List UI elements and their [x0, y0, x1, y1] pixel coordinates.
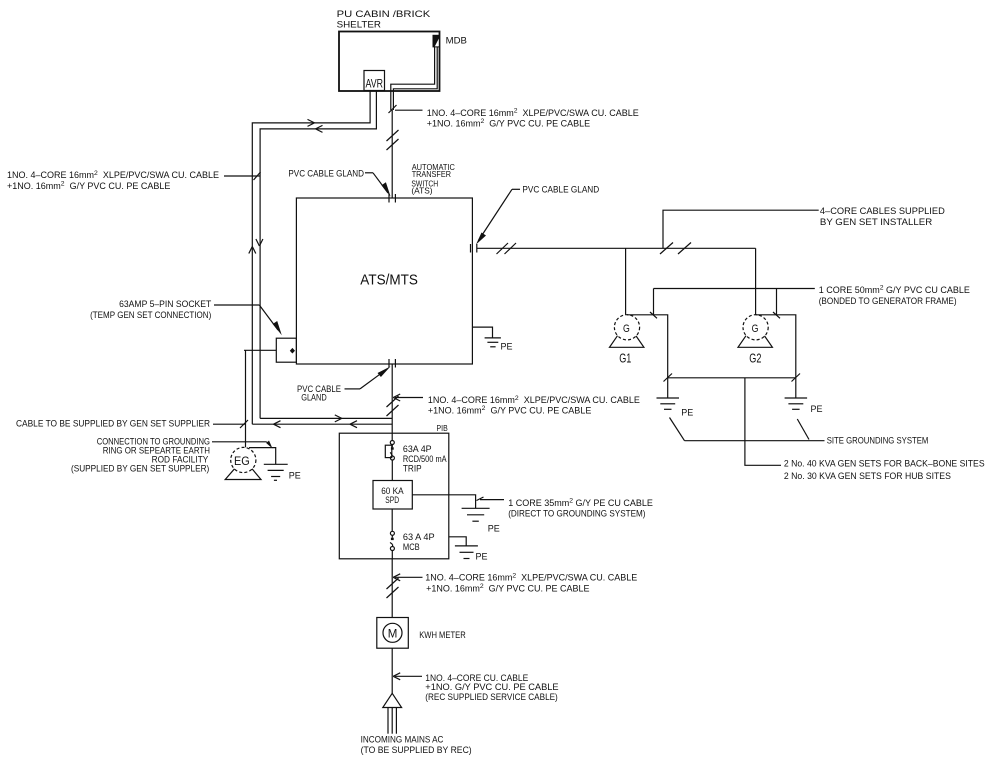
svg-text:INCOMING MAINS AC: INCOMING MAINS AC: [361, 735, 444, 745]
cable label below ATS: [428, 395, 640, 416]
svg-text:(REC SUPPLIED SERVICE CABLE): (REC SUPPLIED SERVICE CABLE): [425, 692, 558, 702]
svg-text:(BONDED TO GENERATOR FRAME): (BONDED TO GENERATOR FRAME): [819, 296, 957, 306]
MCB PE wire: [449, 537, 466, 546]
svg-text:SITE GROUNDING SYSTEM: SITE GROUNDING SYSTEM: [827, 436, 929, 446]
arrow right on upper AVR wire: [308, 119, 315, 126]
svg-text:2 No. 40 KVA GEN SETS FOR BACK: 2 No. 40 KVA GEN SETS FOR BACK–BONE SITE…: [784, 459, 985, 469]
arrow right on upper cross wire: [335, 415, 342, 422]
EG earth generator: [225, 447, 261, 479]
svg-text:PE: PE: [681, 408, 693, 418]
grounding connection label: [71, 436, 210, 473]
cable break marks near ATS: [497, 243, 517, 254]
RCD label: [403, 444, 447, 474]
svg-text:TRIP: TRIP: [403, 464, 422, 474]
riser to installer note: [663, 210, 819, 248]
svg-text:PVC CABLE GLAND: PVC CABLE GLAND: [522, 184, 599, 194]
arrow left on lower cross wire left: [274, 421, 281, 428]
svg-text:+1NO. 16mm2 G/Y PVC CU. PE CA: +1NO. 16mm2 G/Y PVC CU. PE CABLE: [427, 118, 590, 128]
socket feed wire: [244, 349, 276, 351]
left cable label: [7, 170, 219, 191]
svg-text:(ATS): (ATS): [411, 185, 432, 195]
leader to cable label (below PIB): [393, 574, 422, 581]
cross wire lower to PIB: [252, 423, 392, 425]
KWH meter circle: [383, 623, 402, 642]
leader PVC gland to ATS top: [365, 173, 391, 197]
incoming mains label: [361, 735, 472, 756]
leader gen set supplier: [213, 420, 248, 428]
wire AVR left pair lower: [260, 91, 376, 419]
svg-text:AVR: AVR: [366, 77, 384, 91]
PVC cable gland label (bottom): [297, 384, 341, 403]
leader to cable label (MDB drop): [395, 109, 423, 111]
svg-text:PE: PE: [476, 552, 488, 562]
wire AVR left pair upper: [252, 91, 370, 425]
EG feed wire: [245, 350, 247, 447]
svg-text:(TO BE SUPPLIED BY REC): (TO BE SUPPLIED BY REC): [361, 745, 472, 755]
arrow left on lower AVR wire: [316, 125, 323, 132]
ATS PE stub: [472, 327, 492, 338]
site grounding leader: [685, 440, 825, 442]
svg-text:SPD: SPD: [385, 495, 399, 505]
cable break marks on ATS top drop: [387, 130, 399, 150]
svg-text:CABLE TO BE SUPPLIED BY GEN SE: CABLE TO BE SUPPLIED BY GEN SET SUPPLIER: [16, 419, 210, 429]
svg-text:SHELTER: SHELTER: [337, 19, 382, 29]
socket pin diamond: [290, 348, 295, 354]
generator G2: [738, 315, 772, 348]
tick at G1 bonding drop: [650, 312, 657, 318]
EG PE ground: [264, 464, 288, 480]
SPD earth wire: [412, 495, 475, 509]
svg-text:63AMP 5–PIN SOCKET: 63AMP 5–PIN SOCKET: [119, 299, 212, 309]
wire drop to G2: [755, 248, 757, 314]
cable label top right: [427, 107, 639, 128]
wire ATS bottom to PIB: [391, 364, 393, 433]
svg-text:1NO. 4–CORE 16mm2 XLPE/PVC/SW: 1NO. 4–CORE 16mm2 XLPE/PVC/SWA CU. CABLE: [425, 572, 637, 582]
svg-text:PU CABIN /BRICK: PU CABIN /BRICK: [337, 9, 431, 19]
svg-text:PE: PE: [289, 471, 301, 481]
AVR box: [364, 71, 385, 91]
arrow up on left vertical: [249, 247, 256, 254]
shelter box: [339, 32, 440, 92]
svg-text:(TEMP GEN SET CONNECTION): (TEMP GEN SET CONNECTION): [90, 310, 211, 320]
ATS automatic transfer switch label: [411, 162, 455, 195]
wire MDB to ATS inner: [393, 47, 437, 110]
svg-text:PVC CABLE GLAND: PVC CABLE GLAND: [288, 168, 364, 178]
svg-text:+1NO. 16mm2 G/Y PVC CU. PE CA: +1NO. 16mm2 G/Y PVC CU. PE CABLE: [7, 180, 170, 190]
svg-text:1 CORE 35mm2 G/Y PE CU CABLE: 1 CORE 35mm2 G/Y PE CU CABLE: [508, 498, 653, 508]
svg-text:PIB: PIB: [437, 423, 448, 433]
tick at G2 bonding drop: [773, 312, 780, 318]
G1 frame wire: [627, 315, 668, 378]
incoming mains three lines: [388, 708, 396, 734]
PIB box: [339, 433, 449, 559]
svg-text:RCD/500 mA: RCD/500 mA: [403, 454, 447, 464]
63A socket box: [276, 338, 296, 362]
generator G1: [610, 315, 644, 348]
gland tick on MDB drop: [389, 105, 397, 113]
site grounding link from G1: [670, 418, 685, 441]
svg-text:1NO. 4–CORE 16mm2 XLPE/PVC/SW: 1NO. 4–CORE 16mm2 XLPE/PVC/SWA CU. CABLE: [427, 107, 639, 117]
service cable label: [425, 673, 558, 702]
bonding cable label: [819, 284, 970, 305]
gland marks at ATS top: [389, 194, 395, 203]
svg-text:G2: G2: [749, 351, 761, 366]
leader to service cable label: [393, 673, 422, 680]
tick at bus right: [792, 374, 801, 382]
svg-text:2 No. 30 KVA GEN SETS FOR HUB: 2 No. 30 KVA GEN SETS FOR HUB SITES: [784, 471, 951, 481]
svg-text:EG: EG: [234, 454, 250, 468]
SPD label: [381, 486, 403, 505]
svg-text:G1: G1: [619, 351, 631, 366]
svg-text:(DIRECT TO GROUNDING SYSTEM): (DIRECT TO GROUNDING SYSTEM): [508, 509, 645, 519]
ATS PE ground: [485, 338, 501, 347]
gland marks at ATS bottom: [389, 359, 395, 368]
svg-text:+1NO. G/Y PVC CU. PE CABLE: +1NO. G/Y PVC CU. PE CABLE: [425, 682, 558, 692]
leader left cable label to wires: [224, 172, 261, 180]
leader 35mm cable label: [477, 497, 505, 501]
svg-text:4–CORE CABLES SUPPLIED: 4–CORE CABLES SUPPLIED: [820, 206, 945, 216]
arrow down on right vertical: [256, 239, 263, 246]
MCB PE ground: [455, 546, 478, 559]
MCB symbol: [390, 531, 394, 559]
svg-text:PE: PE: [488, 524, 500, 534]
G2 frame wire: [756, 315, 796, 378]
G2 PE ground: [785, 378, 808, 410]
bonding cable 50mm2: [654, 288, 815, 290]
35mm cable label: [508, 498, 653, 519]
wire SPD to MCB: [391, 509, 393, 531]
installer note: [820, 206, 945, 227]
ATS/MTS box: [296, 198, 472, 364]
wire MDB to ATS outer: [391, 47, 435, 110]
svg-text:MDB: MDB: [446, 36, 467, 46]
bonding drop at G2: [776, 289, 778, 316]
svg-text:GLAND: GLAND: [301, 392, 327, 402]
svg-text:1NO. 4–CORE 16mm2 XLPE/PVC/SW: 1NO. 4–CORE 16mm2 XLPE/PVC/SWA CU. CABLE: [428, 395, 640, 405]
cable label below PIB: [425, 572, 637, 593]
RCD symbol: [385, 433, 394, 480]
wire drop to G1: [625, 248, 627, 314]
svg-text:M: M: [388, 626, 398, 640]
svg-text:+1NO. 16mm2 G/Y PVC CU. PE CA: +1NO. 16mm2 G/Y PVC CU. PE CABLE: [426, 583, 589, 593]
gen sets note: [784, 459, 985, 481]
cross wire upper to PIB: [260, 417, 392, 419]
svg-text:MCB: MCB: [403, 542, 420, 552]
svg-text:ATS/MTS: ATS/MTS: [360, 272, 418, 288]
KWH meter box: [377, 618, 409, 649]
leader PVC gland right to ATS corner: [476, 189, 520, 244]
cable break marks below ATS: [387, 396, 399, 416]
leader grounding connection: [212, 441, 273, 449]
socket label: [90, 299, 212, 320]
svg-text:PE: PE: [811, 404, 823, 414]
gland marks at ATS right: [471, 244, 477, 253]
svg-text:63A 4P: 63A 4P: [403, 444, 432, 454]
MCB label: [403, 532, 435, 552]
site grounding link from G2: [797, 419, 809, 440]
svg-text:63 A 4P: 63 A 4P: [403, 532, 435, 542]
svg-text:PE: PE: [501, 342, 513, 352]
leader to cable label (below ATS): [393, 394, 423, 401]
svg-text:(SUPPLIED BY GEN SET SUPPLER): (SUPPLIED BY GEN SET SUPPLER): [71, 464, 209, 474]
SPD PE ground: [462, 508, 490, 521]
wire PIB to KWH meter: [391, 559, 393, 618]
leader socket label: [214, 305, 282, 335]
MDB busbar symbol: [433, 35, 439, 47]
svg-text:G: G: [623, 323, 630, 335]
bonding drop at G1: [653, 289, 655, 316]
svg-text:BY GEN SET INSTALLER: BY GEN SET INSTALLER: [820, 217, 933, 227]
EG to PE wire: [249, 448, 276, 465]
cable break marks mid wire: [660, 243, 691, 255]
cable break marks below PIB: [387, 578, 399, 598]
arrow left on lower cross wire mid: [350, 421, 357, 428]
svg-text:G: G: [752, 323, 759, 335]
tick at bus left: [664, 374, 673, 382]
G1 PE ground: [657, 378, 680, 410]
main generator wire from ATS right: [477, 247, 756, 249]
wire KWH meter to incoming: [391, 648, 393, 693]
incoming mains arrow: [383, 693, 402, 707]
generator PE bus: [668, 377, 796, 379]
wire drop into ATS top: [391, 110, 393, 198]
drop for gen sets note: [745, 378, 781, 466]
svg-text:1NO. 4–CORE 16mm2 XLPE/PVC/SW: 1NO. 4–CORE 16mm2 XLPE/PVC/SWA CU. CABLE: [7, 170, 219, 180]
svg-text:KWH METER: KWH METER: [419, 630, 466, 640]
leader gland bottom: [345, 366, 391, 389]
svg-text:1 CORE 50mm2 G/Y PVC CU CABLE: 1 CORE 50mm2 G/Y PVC CU CABLE: [819, 284, 970, 294]
svg-text:+1NO. 16mm2 G/Y PVC CU. PE CA: +1NO. 16mm2 G/Y PVC CU. PE CABLE: [428, 405, 591, 415]
SPD box: [373, 481, 412, 510]
